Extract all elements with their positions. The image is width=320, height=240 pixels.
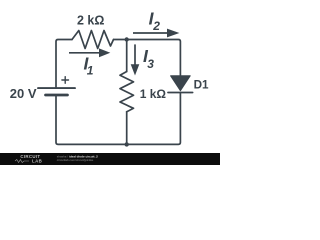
wire: diode cathode down, bottom-right corner, bottom wire, bottom-left corner, up to battery - terminal <box>56 93 180 144</box>
wire: 2 kOhm right lead through top node to top-right corner down to diode anode <box>114 40 181 76</box>
svg-text:D1: D1 <box>194 79 209 92</box>
voltage source 20 V battery: + plate (long) <box>38 87 75 89</box>
diode D1 anode triangle <box>171 76 191 91</box>
current arrow I1 <box>69 48 110 57</box>
battery + polarity sign <box>62 77 69 84</box>
watermark bar <box>0 153 220 165</box>
svg-text:2: 2 <box>152 19 160 33</box>
current label I1 <box>84 53 94 77</box>
voltage source 20 V battery: - plate (short) <box>46 94 68 97</box>
wire: top node down to 1 kOhm top lead <box>126 40 128 72</box>
wire: 1 kOhm bottom lead down to bottom junction <box>126 112 128 145</box>
svg-text:2 kΩ: 2 kΩ <box>77 14 104 28</box>
current arrow I3 <box>131 44 140 75</box>
svg-text:circuitlab.com/circuit/jpk1ke: circuitlab.com/circuit/jpk1ke <box>57 158 94 162</box>
svg-text:20 V: 20 V <box>10 86 37 101</box>
current label I2 <box>149 9 161 33</box>
resistor 1 kOhm (vertical zigzag body) <box>120 72 134 112</box>
diode D1 cathode bar <box>168 92 193 94</box>
svg-text:1: 1 <box>87 63 94 77</box>
current arrow I2 <box>133 29 179 38</box>
CircuitLab logo wave and LAB <box>15 159 42 164</box>
junction node (top, 1 kOhm tap) <box>125 37 129 41</box>
svg-text:3: 3 <box>147 57 154 71</box>
svg-text:LAB: LAB <box>32 159 42 164</box>
current label I3 <box>143 46 154 71</box>
wire: battery + terminal up to top-left corner and to 2 kOhm left lead <box>56 40 72 87</box>
svg-text:1 kΩ: 1 kΩ <box>140 87 167 101</box>
junction node (bottom) <box>125 142 129 146</box>
resistor 2 kOhm (horizontal zigzag body) <box>72 31 114 49</box>
